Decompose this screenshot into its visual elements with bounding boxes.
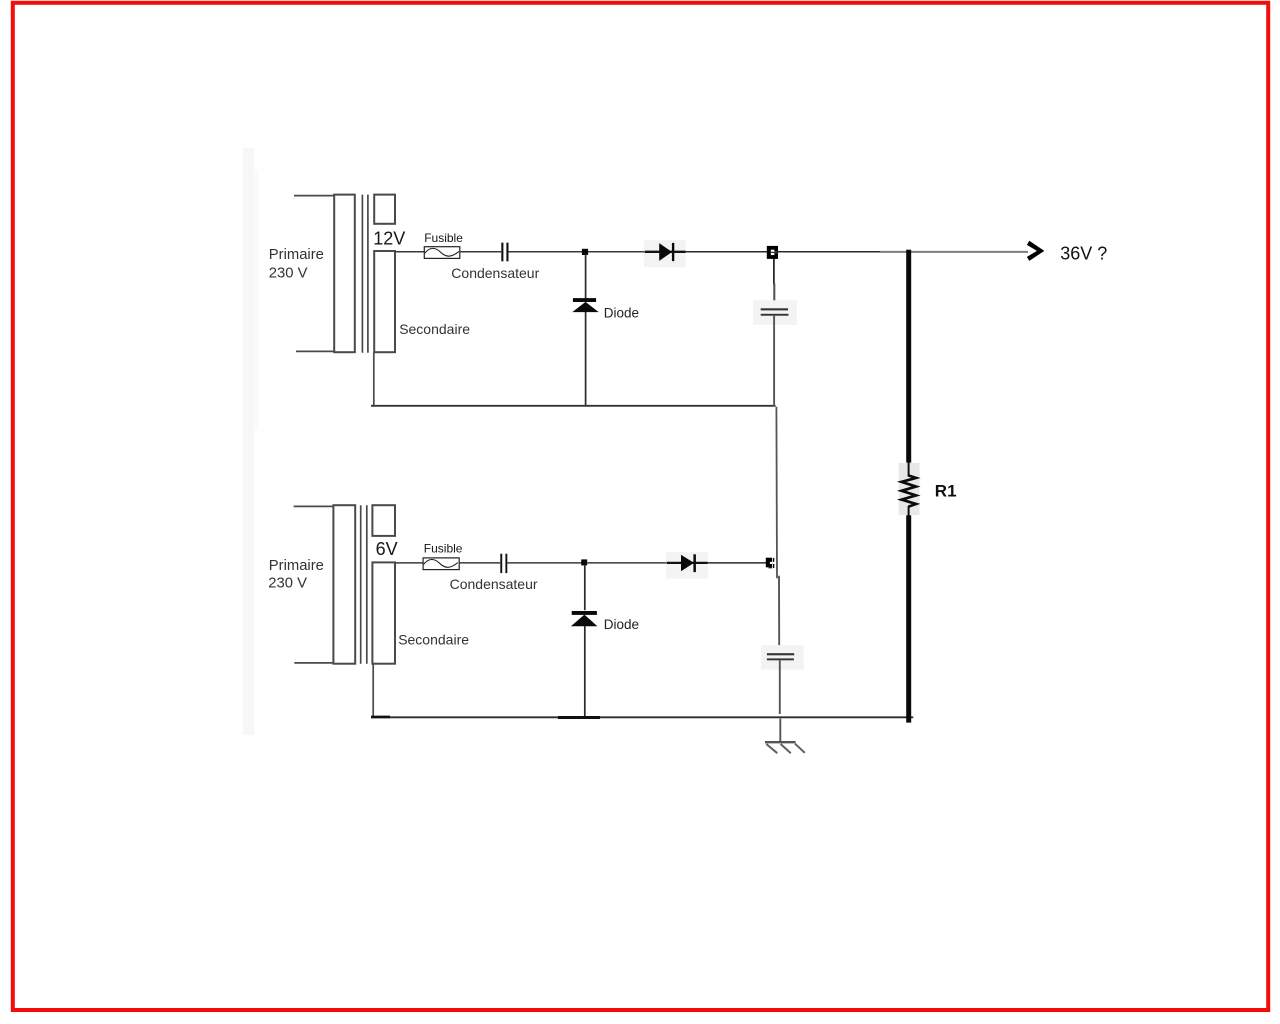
transformer T2 secondary winding lower: [372, 562, 395, 663]
resistor R1 backdrop: [899, 463, 920, 515]
wire node A to diode D1: [588, 251, 645, 253]
capacitor C4 (shunt): [767, 653, 794, 655]
wire D4 to rail 2: [584, 626, 586, 717]
wire node C to diode D3: [587, 562, 666, 564]
resistor R1 leads: [908, 462, 910, 477]
diode D4 (shunt): [572, 611, 597, 615]
wire C3 to node C: [507, 562, 581, 564]
svg-text:230 V: 230 V: [269, 265, 308, 281]
wire node A to diode D2: [585, 254, 587, 298]
diode D2 (shunt): [573, 298, 596, 302]
wire thick bus lower (R1 to rail 2): [906, 515, 911, 722]
svg-text:6V: 6V: [376, 539, 398, 559]
wire through D1: [645, 251, 686, 253]
wire thick bus upper (node B line to R1): [906, 250, 911, 463]
wire C4 to rail 2: [779, 660, 781, 714]
wire D2 to rail 1: [585, 312, 587, 406]
svg-text:Primaire: Primaire: [269, 247, 324, 263]
wire C1 to node A: [509, 251, 583, 253]
svg-text:12V: 12V: [373, 228, 405, 248]
capacitor C2 backdrop: [753, 300, 797, 325]
wire C2 to rail 1: [773, 316, 775, 407]
wire F1 to capacitor C1: [460, 251, 501, 253]
capacitor C2 (shunt): [761, 308, 788, 310]
transformer T2 primary top lead wire: [294, 505, 334, 507]
wire T2 secondary to fuse F2: [395, 562, 423, 564]
capacitor C3 (series): [500, 554, 502, 573]
capacitor C1 (series): [501, 243, 503, 262]
svg-text:36V ?: 36V ?: [1060, 244, 1107, 264]
fuse F1: [424, 247, 460, 259]
output arrow head: [1027, 241, 1044, 261]
fuse F2: [423, 558, 459, 570]
wire rail 1 to stage 2 node: [775, 407, 778, 579]
ground: [765, 741, 796, 743]
svg-text:Condensateur: Condensateur: [451, 265, 539, 281]
resistor R1 zigzag: [902, 476, 916, 507]
diode D3 backdrop: [666, 552, 708, 579]
svg-text:Diode: Diode: [604, 305, 639, 320]
transformer T2 core: [360, 505, 362, 664]
wire T1 secondary to fuse F1: [395, 251, 424, 253]
wire D3 to node D: [708, 562, 767, 564]
svg-text:Diode: Diode: [604, 617, 639, 632]
ground stem: [779, 719, 781, 743]
transformer T2 primary bottom lead wire: [294, 662, 333, 664]
transformer T1 primary bottom lead wire: [296, 350, 335, 352]
svg-text:Fusible: Fusible: [424, 542, 463, 556]
svg-text:Primaire: Primaire: [269, 558, 324, 574]
diode D1 (series): [659, 243, 672, 261]
svg-text:R1: R1: [935, 482, 957, 501]
svg-text:Fusible: Fusible: [424, 231, 463, 245]
node A junction dot: [582, 249, 588, 255]
wire D1 to node B: [686, 251, 768, 253]
wire rail 2: [371, 716, 913, 718]
diode D1 backdrop: [644, 240, 686, 267]
wire F2 to capacitor C3: [459, 562, 500, 564]
svg-text:Secondaire: Secondaire: [399, 321, 470, 337]
wire node C to diode D4: [584, 565, 586, 610]
svg-text:Condensateur: Condensateur: [450, 576, 538, 592]
transformer T2 primary winding: [333, 505, 355, 664]
wire node B to output: [778, 251, 880, 253]
node D junction square: [766, 558, 772, 568]
wire T1 secondary bottom down: [373, 352, 375, 406]
transformer T1 secondary winding upper: [374, 195, 395, 224]
node B junction square: [767, 246, 778, 259]
wire stage 2 node down to C4: [778, 576, 780, 646]
wire T2 secondary bottom down: [372, 664, 374, 718]
svg-text:230 V: 230 V: [268, 575, 307, 591]
capacitor C4 backdrop: [761, 645, 804, 670]
diode D3 (series): [681, 555, 694, 572]
transformer T1 secondary winding lower: [374, 251, 395, 352]
transformer T1 primary winding: [334, 195, 355, 353]
wire through D3: [667, 562, 708, 564]
transformer T2 secondary winding upper: [372, 505, 395, 536]
scan smudge band: [243, 148, 254, 735]
svg-text:Secondaire: Secondaire: [398, 632, 469, 648]
wire node B down: [773, 259, 775, 285]
transformer T1 primary top lead wire: [294, 195, 335, 197]
transformer T1 core: [361, 195, 363, 353]
node C junction dot: [581, 559, 587, 565]
wire rail 1: [371, 405, 776, 407]
